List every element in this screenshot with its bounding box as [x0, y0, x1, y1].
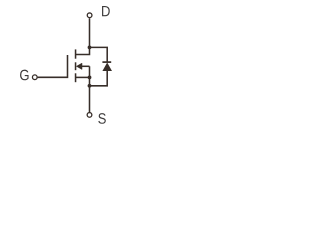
wire diode anode: [90, 70, 108, 85]
diode D1 triangle: [103, 63, 111, 70]
terminal D pin circle: [87, 13, 92, 18]
channel bottom segment: [75, 73, 77, 82]
label D: [102, 6, 110, 16]
wire source vertical: [89, 66, 91, 112]
label S: [98, 113, 106, 124]
junction node drain-diode: [88, 46, 92, 50]
terminal G pin circle: [32, 75, 37, 80]
junction node source tap: [88, 76, 92, 80]
body arrow head: [76, 63, 82, 69]
channel top segment: [75, 49, 77, 58]
label G: [20, 70, 29, 81]
junction node source-diode: [88, 84, 92, 88]
channel middle segment: [75, 62, 77, 70]
terminal S pin circle: [87, 113, 92, 118]
wire drain node to diode cathode: [90, 47, 108, 61]
wire source tap: [76, 76, 90, 78]
wire drain vertical and drain tap: [76, 18, 90, 54]
diode D1 cathode bar: [102, 61, 111, 63]
body arrow tail: [81, 65, 89, 67]
gate lead and gate plate of Q1: [38, 55, 68, 77]
